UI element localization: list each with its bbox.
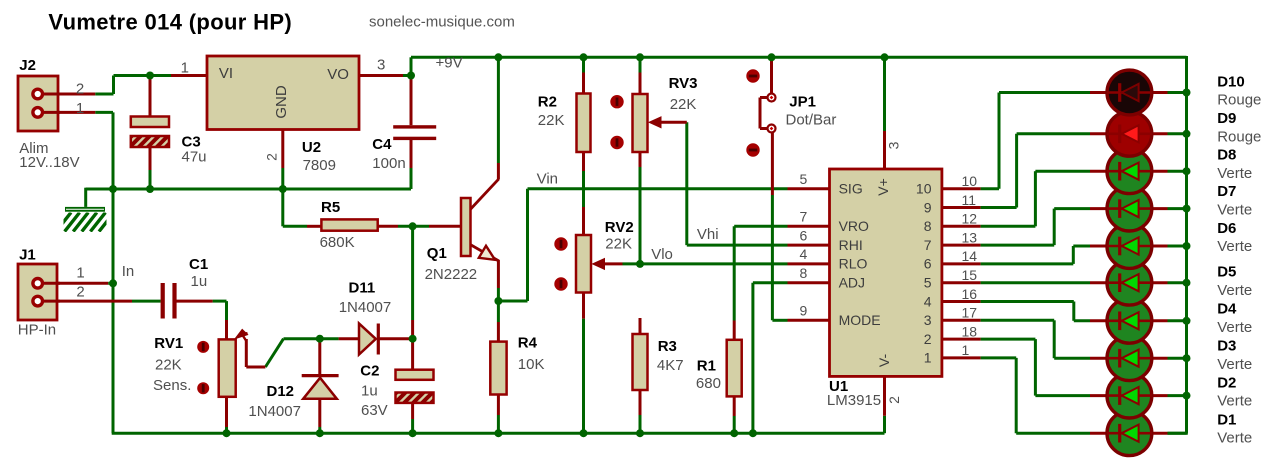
svg-text:14: 14 <box>962 248 978 264</box>
svg-text:In: In <box>122 263 135 280</box>
svg-text:12: 12 <box>962 211 978 227</box>
svg-text:V-: V- <box>876 354 892 368</box>
svg-text:D10: D10 <box>1217 73 1245 90</box>
svg-text:2: 2 <box>264 153 280 161</box>
svg-text:Dot/Bar: Dot/Bar <box>786 112 837 129</box>
svg-text:C1: C1 <box>189 256 208 273</box>
svg-text:D7: D7 <box>1217 183 1236 200</box>
svg-text:J2: J2 <box>19 57 36 74</box>
svg-text:7: 7 <box>924 237 932 253</box>
svg-text:22K: 22K <box>538 112 565 129</box>
svg-text:2: 2 <box>886 396 902 404</box>
svg-text:D2: D2 <box>1217 375 1236 392</box>
svg-text:12V..18V: 12V..18V <box>19 154 79 171</box>
svg-text:Verte: Verte <box>1217 165 1252 182</box>
svg-text:4: 4 <box>924 293 932 309</box>
svg-text:22K: 22K <box>155 356 182 373</box>
svg-text:1u: 1u <box>191 273 208 290</box>
svg-text:ADJ: ADJ <box>839 275 865 291</box>
svg-text:VI: VI <box>219 65 233 82</box>
svg-text:1: 1 <box>76 264 84 281</box>
svg-text:Sens.: Sens. <box>153 377 191 394</box>
svg-text:Rouge: Rouge <box>1217 128 1261 145</box>
svg-text:4K7: 4K7 <box>657 357 684 374</box>
svg-text:Vlo: Vlo <box>651 246 673 263</box>
svg-text:SIG: SIG <box>839 181 863 197</box>
svg-text:2N2222: 2N2222 <box>425 266 478 283</box>
svg-text:1u: 1u <box>361 383 378 400</box>
svg-text:47u: 47u <box>182 148 207 165</box>
svg-text:17: 17 <box>962 305 978 321</box>
svg-text:sonelec-musique.com: sonelec-musique.com <box>369 14 515 31</box>
svg-text:1N4007: 1N4007 <box>339 299 392 316</box>
svg-text:6: 6 <box>800 227 808 243</box>
svg-text:10: 10 <box>916 181 932 197</box>
svg-text:R5: R5 <box>321 199 340 216</box>
svg-text:Rouge: Rouge <box>1217 92 1261 109</box>
svg-text:18: 18 <box>962 323 978 339</box>
svg-text:3: 3 <box>377 57 385 74</box>
svg-text:MODE: MODE <box>839 312 881 328</box>
svg-text:RV2: RV2 <box>605 219 634 236</box>
svg-text:10K: 10K <box>518 356 545 373</box>
svg-text:13: 13 <box>962 229 978 245</box>
svg-text:Verte: Verte <box>1217 319 1252 336</box>
svg-text:C4: C4 <box>372 136 392 153</box>
svg-text:22K: 22K <box>670 96 697 113</box>
svg-text:9: 9 <box>800 303 808 319</box>
svg-text:9: 9 <box>924 199 932 215</box>
svg-text:4: 4 <box>800 246 808 262</box>
svg-text:D8: D8 <box>1217 147 1236 164</box>
svg-text:Verte: Verte <box>1217 430 1252 447</box>
svg-text:22K: 22K <box>605 236 632 253</box>
svg-text:10: 10 <box>962 173 978 189</box>
svg-text:7: 7 <box>800 209 808 225</box>
svg-text:16: 16 <box>962 286 978 302</box>
svg-text:Q1: Q1 <box>427 245 447 262</box>
svg-text:7809: 7809 <box>303 157 336 174</box>
svg-text:2: 2 <box>924 331 932 347</box>
svg-text:5: 5 <box>924 275 932 291</box>
svg-text:RV1: RV1 <box>154 335 183 352</box>
svg-text:Verte: Verte <box>1217 238 1252 255</box>
svg-text:J1: J1 <box>19 247 36 264</box>
svg-text:U2: U2 <box>302 139 321 156</box>
svg-text:Verte: Verte <box>1217 282 1252 299</box>
svg-text:+9V: +9V <box>436 55 463 72</box>
svg-text:GND: GND <box>273 85 290 119</box>
svg-text:D3: D3 <box>1217 338 1236 355</box>
svg-text:8: 8 <box>924 218 932 234</box>
svg-text:R4: R4 <box>518 335 538 352</box>
svg-text:100n: 100n <box>372 155 405 172</box>
svg-text:D4: D4 <box>1217 301 1237 318</box>
svg-text:5: 5 <box>800 171 808 187</box>
svg-text:63V: 63V <box>361 402 388 419</box>
svg-text:Vumetre 014 (pour HP): Vumetre 014 (pour HP) <box>48 9 292 34</box>
svg-text:D11: D11 <box>349 279 376 296</box>
svg-text:680: 680 <box>696 375 721 392</box>
svg-text:2: 2 <box>76 284 84 301</box>
svg-text:D12: D12 <box>267 383 295 400</box>
svg-text:VO: VO <box>327 66 349 83</box>
svg-text:HP-In: HP-In <box>18 322 56 339</box>
svg-text:11: 11 <box>962 192 977 208</box>
svg-text:D9: D9 <box>1217 110 1236 127</box>
svg-text:D1: D1 <box>1217 411 1236 428</box>
svg-text:JP1: JP1 <box>789 94 816 111</box>
svg-text:1: 1 <box>76 100 84 117</box>
svg-text:1: 1 <box>181 60 189 77</box>
svg-text:R2: R2 <box>538 94 557 111</box>
svg-text:1: 1 <box>924 350 932 366</box>
svg-text:V+: V+ <box>875 178 891 196</box>
svg-text:3: 3 <box>886 141 902 149</box>
svg-text:RLO: RLO <box>839 256 868 272</box>
svg-text:6: 6 <box>924 256 932 272</box>
svg-text:LM3915: LM3915 <box>827 392 881 409</box>
svg-text:RHI: RHI <box>839 237 863 253</box>
svg-text:C2: C2 <box>360 362 379 379</box>
svg-text:R1: R1 <box>697 358 716 375</box>
svg-text:Verte: Verte <box>1217 356 1252 373</box>
svg-text:8: 8 <box>800 265 808 281</box>
svg-text:1N4007: 1N4007 <box>248 403 301 420</box>
svg-text:2: 2 <box>76 80 84 97</box>
svg-text:Verte: Verte <box>1217 202 1252 219</box>
svg-text:1: 1 <box>962 342 970 358</box>
svg-text:R3: R3 <box>658 338 677 355</box>
svg-text:Vin: Vin <box>537 171 558 188</box>
svg-text:680K: 680K <box>320 234 355 251</box>
svg-text:RV3: RV3 <box>669 75 698 92</box>
svg-text:D5: D5 <box>1217 264 1236 281</box>
svg-text:VRO: VRO <box>839 218 869 234</box>
svg-text:Vhi: Vhi <box>697 226 719 243</box>
svg-text:15: 15 <box>962 267 978 283</box>
svg-text:D6: D6 <box>1217 220 1236 237</box>
svg-text:3: 3 <box>924 312 932 328</box>
svg-text:Verte: Verte <box>1217 393 1252 410</box>
